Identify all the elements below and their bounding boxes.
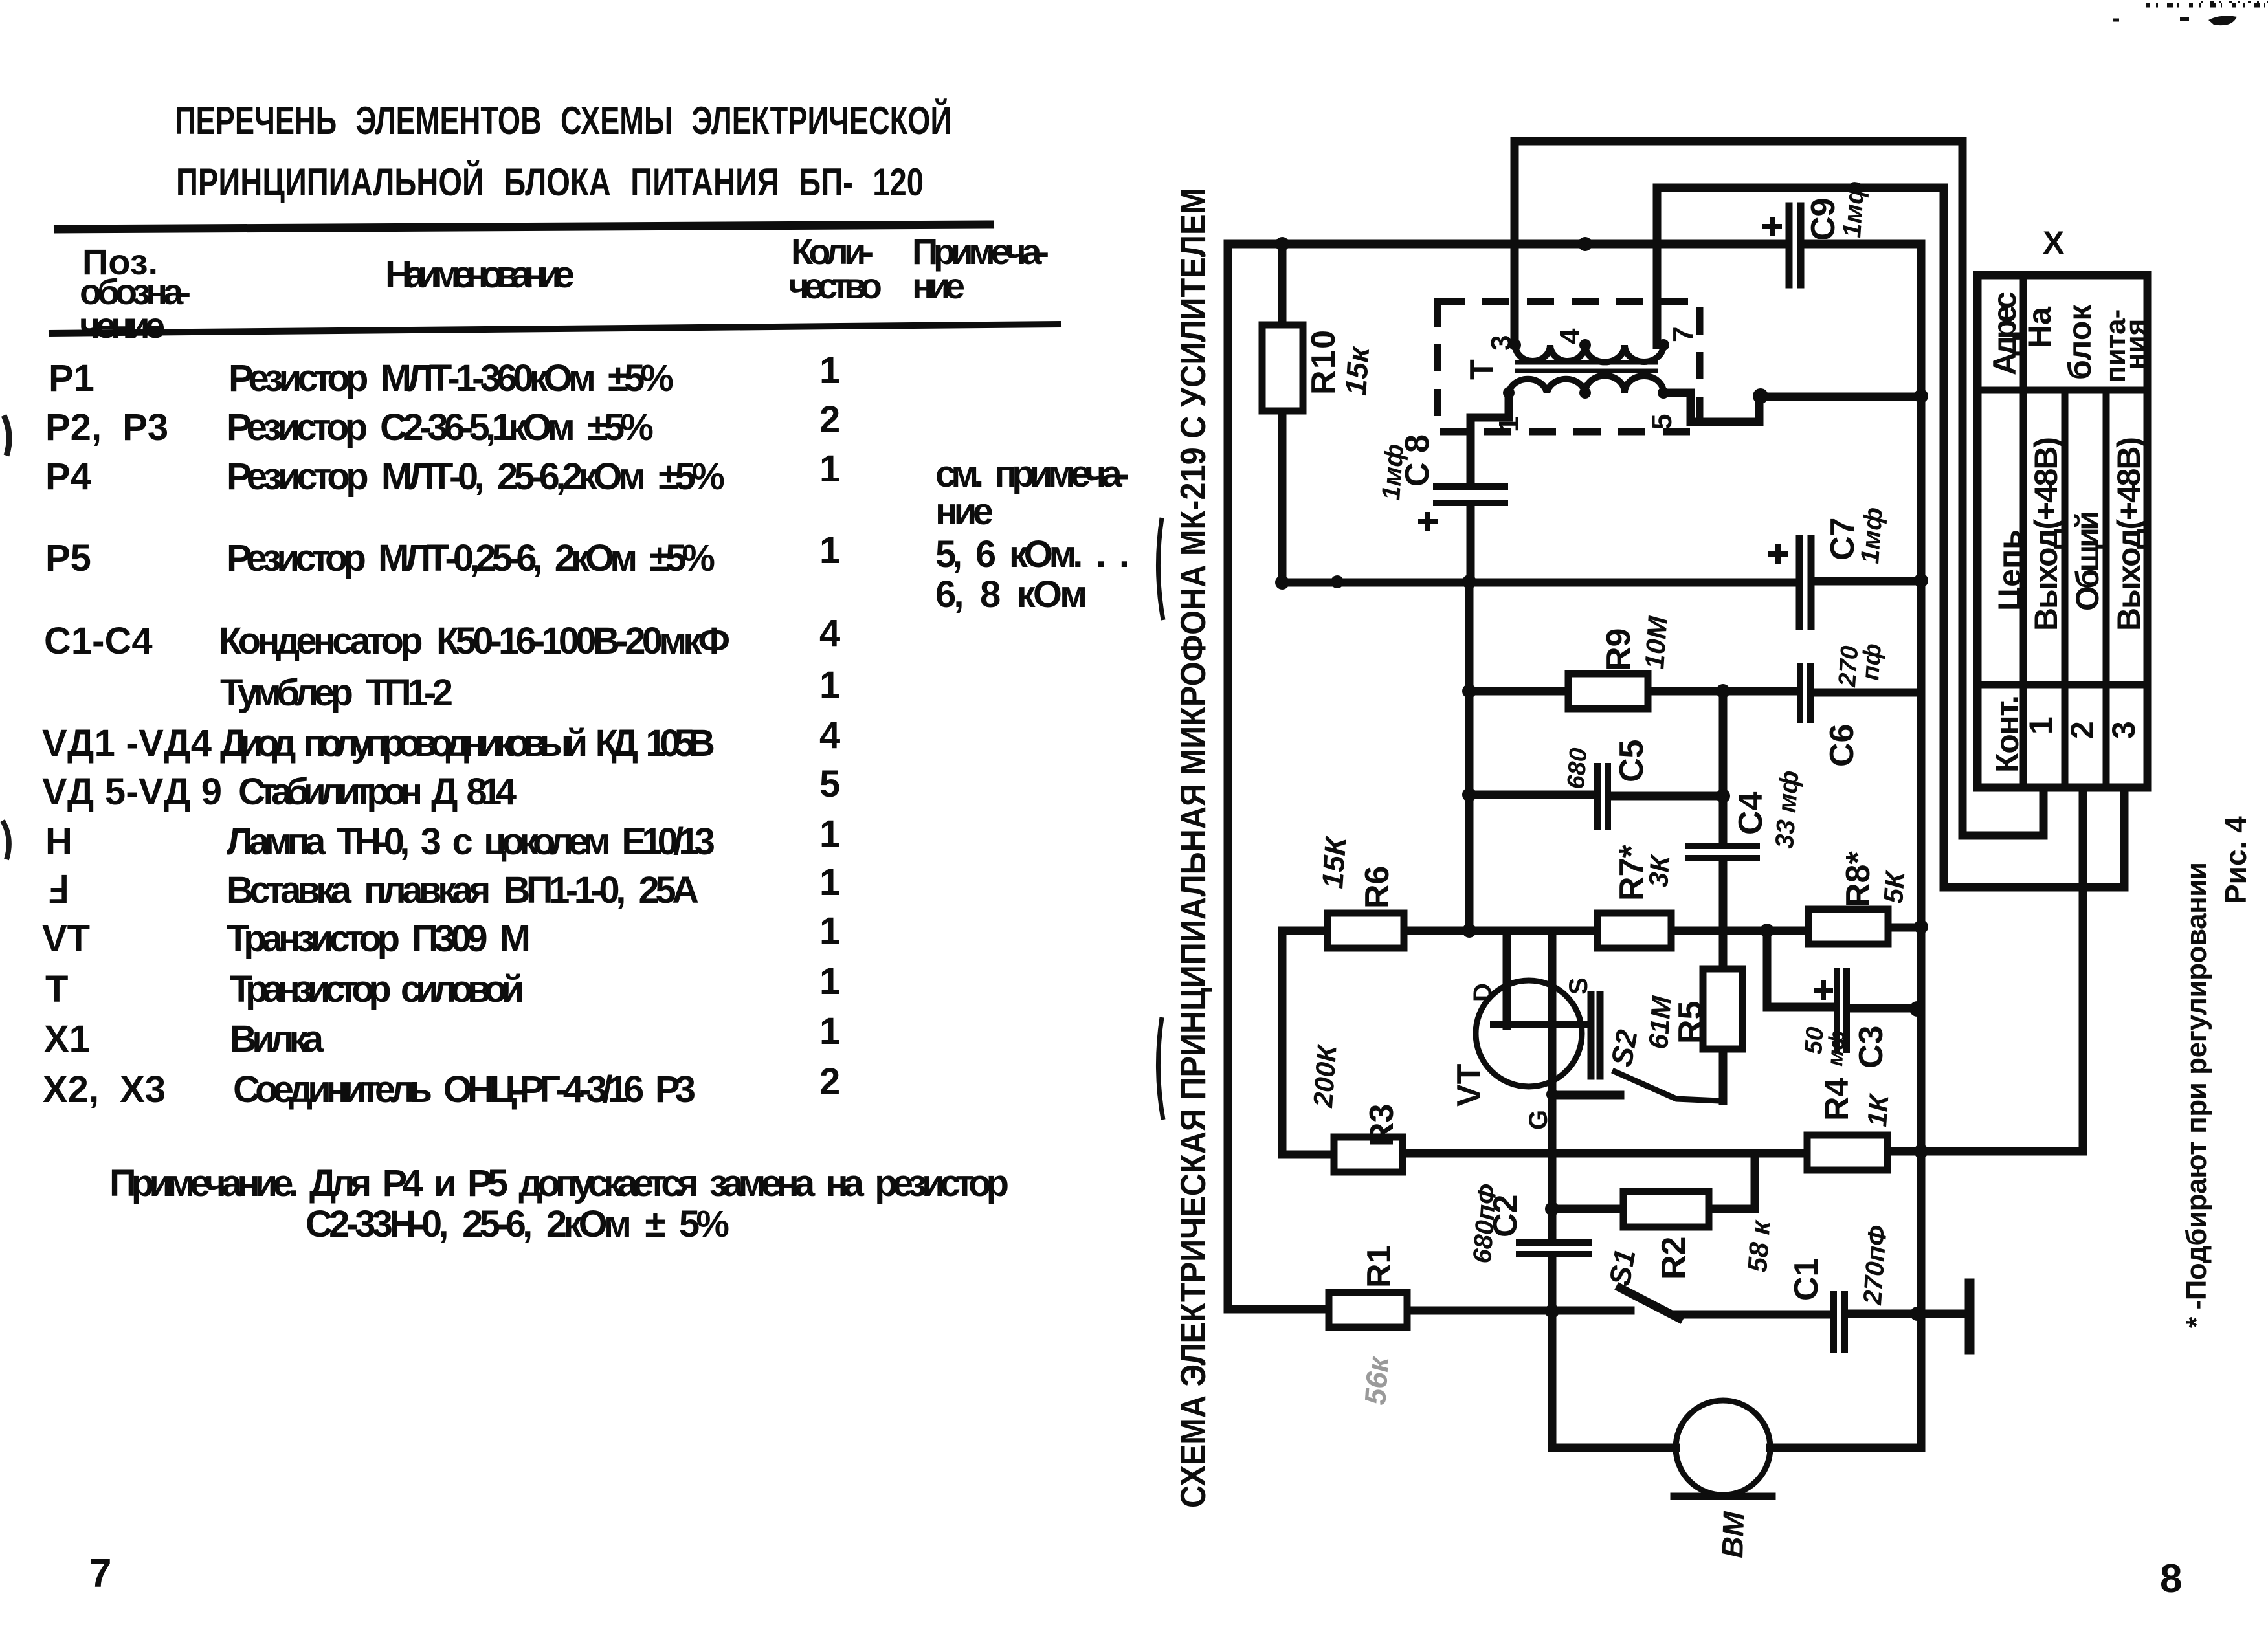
svg-text:3: 3 [2106,721,2142,739]
svg-text:4: 4 [819,612,840,654]
svg-text:Транзистор силовой: Транзистор силовой [230,968,524,1010]
svg-text:R3: R3 [1363,1104,1401,1147]
svg-text:Соединитель ОНЦ-РГ-4-3/16 Р3: Соединитель ОНЦ-РГ-4-3/16 Р3 [233,1068,696,1111]
svg-text:1: 1 [1493,417,1525,432]
svg-text:3: 3 [1485,335,1517,351]
svg-text:Общий: Общий [2069,511,2106,611]
svg-text:5К: 5К [1878,869,1911,905]
svg-text:15к: 15к [1339,344,1375,397]
svg-text:270пФ: 270пФ [1858,1224,1893,1307]
svg-text:G: G [1524,1110,1553,1130]
svg-text:Вставка плавкая ВП1-1-0, 25А: Вставка плавкая ВП1-1-0, 25А [227,869,699,911]
svg-text:680: 680 [1562,747,1592,790]
svg-text:С3: С3 [1852,1026,1890,1068]
svg-text:10М: 10М [1639,615,1673,670]
svg-text:2: 2 [2064,721,2100,739]
svg-text:Рис. 4: Рис. 4 [2219,816,2252,904]
svg-text:ние: ние [935,491,994,533]
svg-text:33 мф: 33 мф [1770,769,1804,849]
svg-text:Выход(+48В): Выход(+48В) [2111,437,2147,631]
svg-text:15К: 15К [1315,834,1353,890]
svg-text:Р5: Р5 [45,537,91,579]
svg-text:Примечание. Для Р4 и Р5 допус: Примечание. Для Р4 и Р5 допускается заме… [109,1162,1009,1204]
svg-text:Резистор МЛТ-0,25-6, 2кОм ±5%: Резистор МЛТ-0,25-6, 2кОм ±5% [227,537,715,579]
svg-text:Выход(+48В): Выход(+48В) [2028,437,2064,631]
svg-text:VД 5-VД 9: VД 5-VД 9 [42,771,222,813]
svg-text:ние: ние [912,265,965,306]
svg-text:Стабилитрон Д 814: Стабилитрон Д 814 [238,771,517,813]
svg-text:1: 1 [819,529,840,571]
svg-text:С1-С4: С1-С4 [44,620,153,662]
svg-text:R4: R4 [1818,1078,1856,1121]
svg-text:Ⅎ: Ⅎ [47,869,68,911]
svg-text:* -Подбирают при регулировании: * -Подбирают при регулировании [2181,862,2212,1328]
svg-text:3К: 3К [1643,852,1676,889]
svg-text:S: S [1564,977,1593,995]
svg-text:R9: R9 [1600,628,1638,671]
svg-text:С6: С6 [1823,724,1861,767]
svg-text:1: 1 [819,349,840,392]
svg-text:4: 4 [819,714,840,757]
svg-text:1: 1 [819,910,840,952]
svg-text:Конденсатор К50-16-100В-20мкФ: Конденсатор К50-16-100В-20мкФ [219,620,730,662]
svg-text:D: D [1469,983,1497,1002]
svg-text:Резистор МЛТ-1-360кОм ±5%: Резистор МЛТ-1-360кОм ±5% [228,357,674,399]
svg-text:пф: пф [1857,643,1887,681]
svg-text:1: 1 [819,960,840,1002]
svg-text:Тумблер ТП1-2: Тумблер ТП1-2 [220,672,453,714]
svg-text:56к: 56к [1358,1354,1395,1406]
svg-text:Т: Т [45,968,68,1010]
svg-text:С5: С5 [1613,740,1651,782]
svg-text:7: 7 [1667,327,1699,342]
svg-text:6, 8 кОм: 6, 8 кОм [935,573,1087,615]
svg-text:Р2, Р3: Р2, Р3 [45,406,168,448]
svg-text:Адрес: Адрес [1986,291,2023,375]
svg-text:1мф: 1мф [1856,507,1888,565]
svg-text:Резистор МЛТ-0, 25-6,2кОм ±5%: Резистор МЛТ-0, 25-6,2кОм ±5% [227,456,725,498]
svg-text:1К: 1К [1862,1092,1895,1128]
svg-text:Цепь: Цепь [1992,529,2028,611]
svg-text:Т: Т [1463,359,1501,380]
svg-text:680пФ: 680пФ [1468,1183,1502,1265]
svg-text:1: 1 [819,813,840,855]
svg-text:61М: 61М [1643,995,1677,1050]
svg-text:2: 2 [819,1061,840,1103]
svg-text:5: 5 [819,763,840,805]
svg-text:Х1: Х1 [44,1018,90,1060]
svg-text:R6: R6 [1359,866,1396,909]
svg-text:S2: S2 [1605,1027,1644,1069]
svg-text:VД1 -VД4: VД1 -VД4 [42,722,212,764]
svg-text:Конт.: Конт. [1989,695,2025,773]
svg-text:СХЕМА ЭЛЕКТРИЧЕСКАЯ ПРИНЦИПИАЛ: СХЕМА ЭЛЕКТРИЧЕСКАЯ ПРИНЦИПИАЛЬНАЯ МИКРО… [1173,188,1213,1508]
svg-text:Наименование: Наименование [385,254,575,296]
svg-text:R1: R1 [1361,1245,1398,1288]
svg-text:4: 4 [1554,328,1586,344]
svg-text:8: 8 [2160,1556,2182,1601]
svg-text:1: 1 [819,448,840,490]
svg-text:Р4: Р4 [45,456,91,498]
svg-text:Р1: Р1 [49,357,94,399]
svg-text:200К: 200К [1307,1043,1342,1109]
svg-text:1мф: 1мф [1838,181,1870,239]
svg-text:С4: С4 [1732,791,1770,835]
svg-text:ПЕРЕЧЕНЬ ЭЛЕМЕНТОВ СХЕМЫ ЭЛЕКТ: ПЕРЕЧЕНЬ ЭЛЕМЕНТОВ СХЕМЫ ЭЛЕКТРИЧЕСКОЙ [175,99,951,142]
svg-text:1: 1 [819,1010,840,1052]
svg-text:ВМ: ВМ [1715,1510,1751,1558]
svg-text:2: 2 [819,399,840,441]
svg-text:чение: чение [80,305,165,346]
svg-text:блок: блок [2062,304,2098,380]
svg-text:R10: R10 [1305,330,1342,395]
svg-text:R2: R2 [1655,1237,1693,1279]
svg-text:R8*: R8* [1840,851,1877,907]
svg-text:Диод полупроводниковый КД 105В: Диод полупроводниковый КД 105В [220,722,715,764]
svg-text:5: 5 [1646,414,1678,430]
svg-text:5, 6 кОм. . .: 5, 6 кОм. . . [935,533,1129,575]
svg-text:С2-33Н-0, 25-6, 2кОм ± 5%: С2-33Н-0, 25-6, 2кОм ± 5% [306,1203,729,1245]
svg-text:ния: ния [2120,319,2151,370]
svg-text:мф: мф [1823,1030,1850,1067]
svg-text:чество: чество [788,265,882,306]
svg-text:Лампа ТН-0, 3 с цоколем Е10/13: Лампа ТН-0, 3 с цоколем Е10/13 [227,821,715,863]
svg-text:VТ: VТ [1451,1063,1488,1107]
svg-text:VТ: VТ [42,918,90,960]
svg-text:1: 1 [2023,716,2059,735]
svg-text:1мф: 1мф [1377,443,1409,502]
svg-text:1: 1 [819,861,840,903]
svg-text:1: 1 [819,664,840,706]
svg-text:см. примеча-: см. примеча- [935,453,1129,495]
svg-text:На: На [2021,306,2058,348]
svg-text:Вилка: Вилка [230,1018,324,1060]
svg-text:ПРИНЦИПИАЛЬНОЙ БЛОКА ПИТАНИЯ Б: ПРИНЦИПИАЛЬНОЙ БЛОКА ПИТАНИЯ БП- 120 [176,160,924,204]
svg-text:Н: Н [45,821,72,863]
svg-text:X: X [2043,225,2064,261]
svg-text:Резистор С2-36-5,1кОм ±5%: Резистор С2-36-5,1кОм ±5% [227,406,654,448]
svg-text:Транзистор П309 М: Транзистор П309 М [227,918,531,960]
svg-text:Х2, Х3: Х2, Х3 [43,1068,166,1111]
svg-text:58 к: 58 к [1742,1219,1776,1273]
svg-text:С9: С9 [1805,198,1842,241]
svg-text:7: 7 [89,1551,111,1596]
svg-text:С1: С1 [1788,1258,1825,1301]
svg-text:S1: S1 [1603,1246,1642,1288]
svg-text:R5: R5 [1672,1001,1709,1044]
